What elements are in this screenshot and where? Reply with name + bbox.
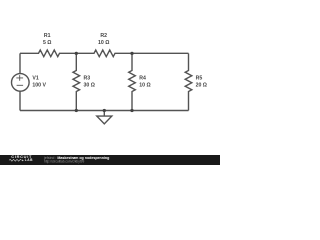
svg-text:R2: R2 [100, 33, 107, 39]
svg-text:LAB: LAB [25, 158, 33, 162]
svg-text:10 Ω: 10 Ω [98, 40, 109, 46]
svg-text:10 Ω: 10 Ω [139, 82, 150, 88]
svg-text:30 Ω: 30 Ω [84, 82, 95, 88]
svg-text:R1: R1 [44, 33, 51, 39]
svg-text:100 V: 100 V [32, 82, 46, 88]
svg-text:R3: R3 [84, 75, 91, 81]
svg-text:5 Ω: 5 Ω [43, 40, 52, 46]
svg-text:V1: V1 [32, 75, 38, 81]
svg-text:R5: R5 [196, 75, 203, 81]
svg-text:http://circuitlab.com/c/kbyt99: http://circuitlab.com/c/kbyt99 [44, 160, 84, 164]
svg-text:20 Ω: 20 Ω [196, 82, 207, 88]
svg-text:R4: R4 [139, 75, 146, 81]
